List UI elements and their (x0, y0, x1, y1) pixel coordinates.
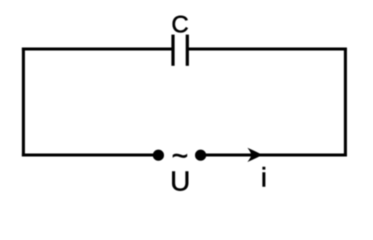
source terminal node right (195, 150, 206, 161)
wire bottom-right horizontal (201, 153, 347, 156)
wire left vertical (22, 48, 25, 157)
capacitor C1 right plate (186, 35, 189, 66)
svg-text:U: U (170, 165, 190, 196)
wire top-left horizontal (22, 47, 173, 50)
current direction arrowhead (247, 148, 262, 162)
capacitor C1 left plate (171, 35, 174, 66)
svg-text:C: C (171, 11, 188, 38)
wire top-right horizontal (187, 47, 346, 50)
wire bottom-left horizontal (22, 153, 159, 156)
source terminal node left (153, 150, 164, 161)
svg-text:i: i (261, 162, 267, 192)
wire right vertical (344, 48, 347, 157)
